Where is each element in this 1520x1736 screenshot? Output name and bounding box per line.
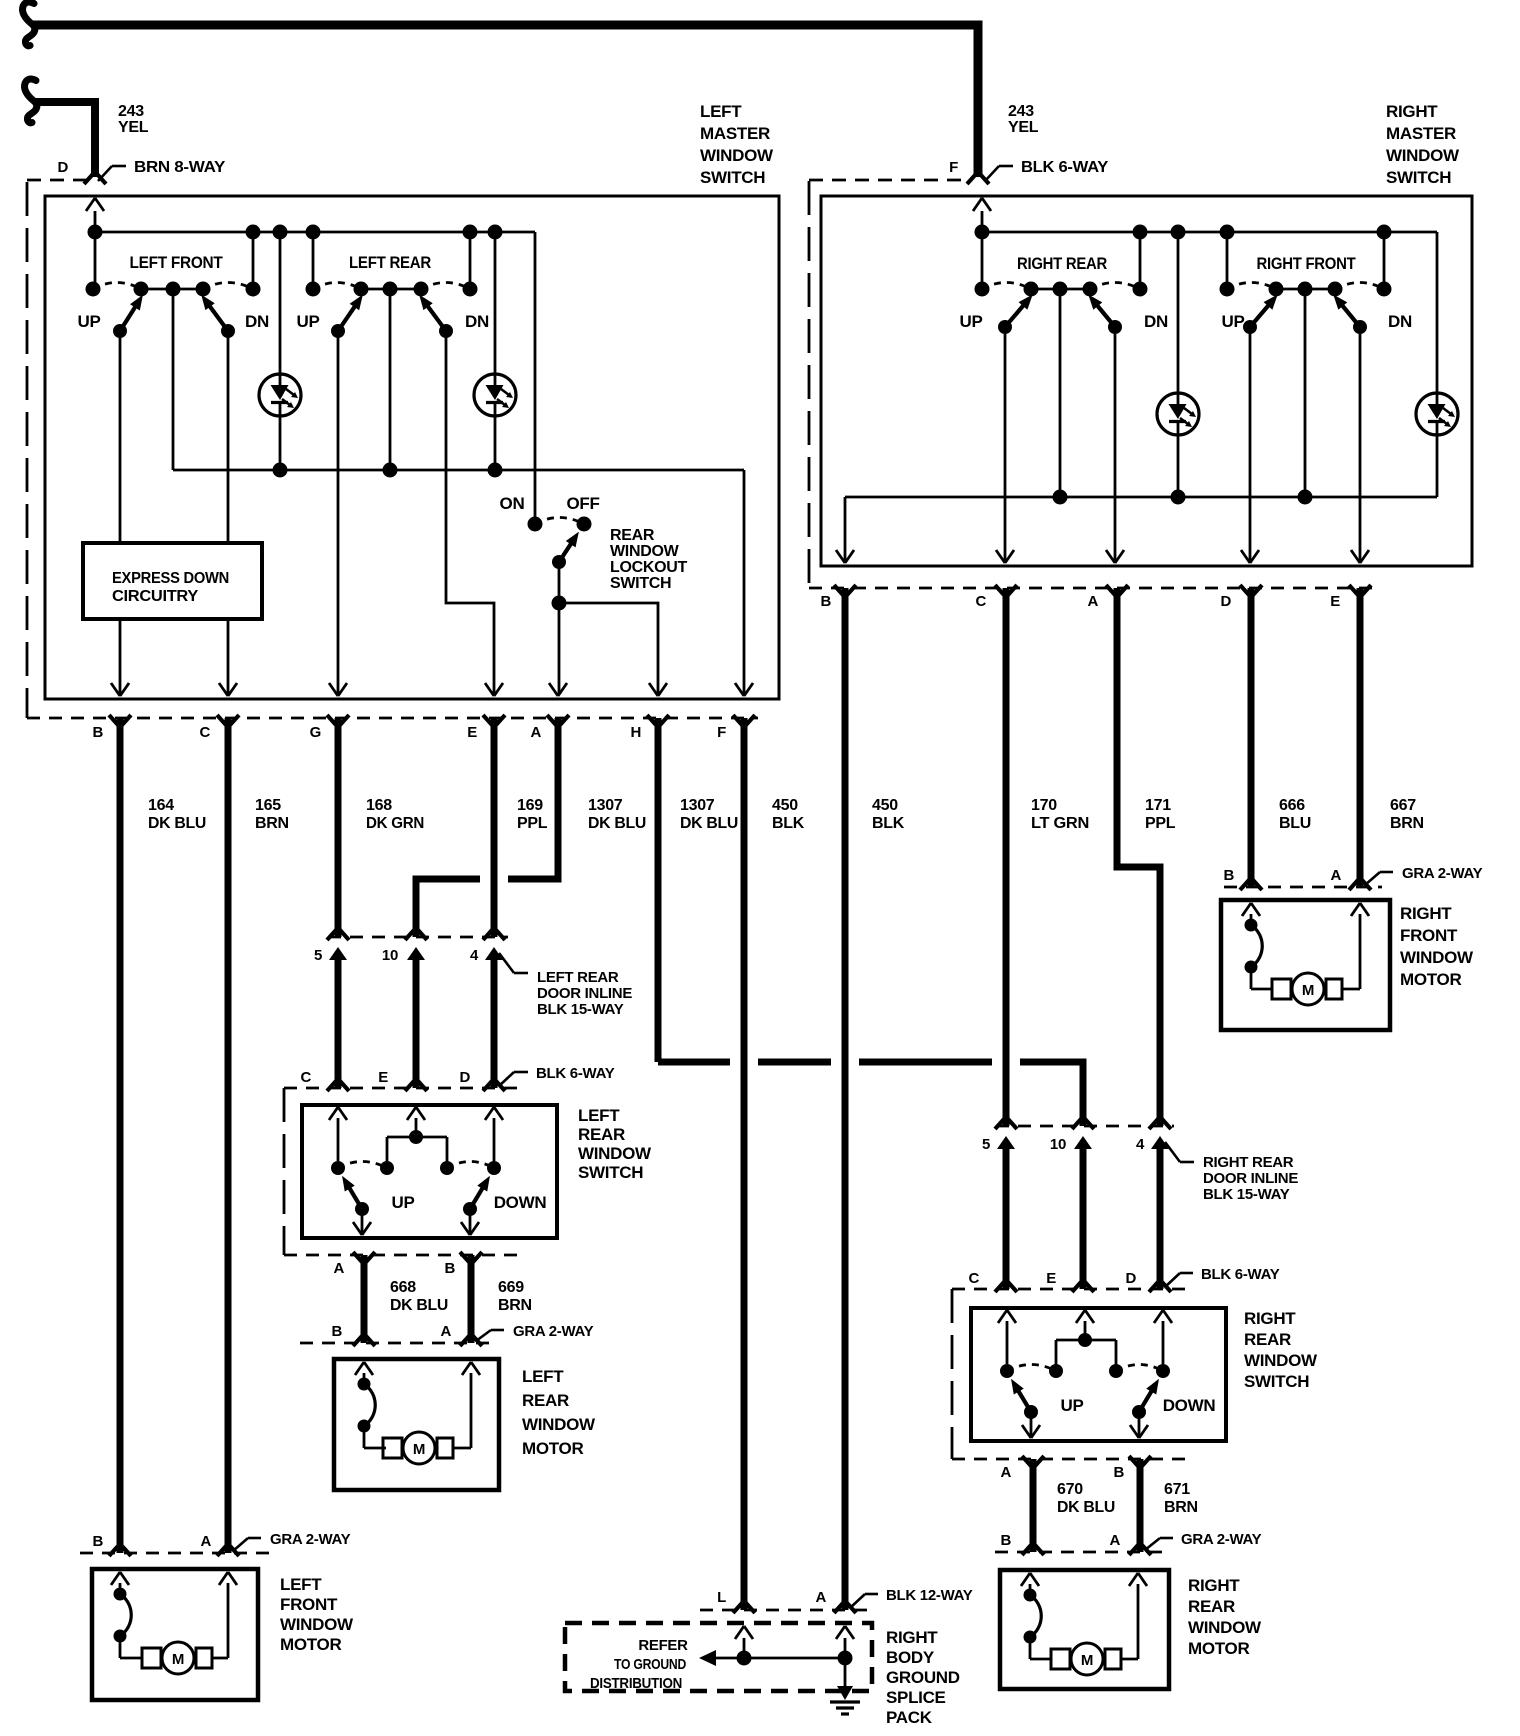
svg-text:MOTOR: MOTOR <box>1188 1639 1249 1658</box>
svg-text:ON: ON <box>500 494 525 513</box>
svg-text:C: C <box>199 724 210 741</box>
left master switch dashed outline <box>27 180 88 718</box>
ground symbol <box>830 1658 860 1714</box>
svg-text:C: C <box>968 1270 979 1287</box>
svg-text:BLK 6-WAY: BLK 6-WAY <box>1021 159 1109 176</box>
svg-text:WINDOW: WINDOW <box>522 1415 596 1434</box>
label LEFT FRONT <box>130 253 224 272</box>
svg-text:LEFT FRONT: LEFT FRONT <box>130 253 224 272</box>
svg-text:TO GROUND: TO GROUND <box>614 1656 686 1673</box>
svg-text:FRONT: FRONT <box>1400 926 1458 945</box>
svg-text:BODY: BODY <box>886 1648 935 1667</box>
wire 243 YEL top feed to right master switch <box>33 25 989 184</box>
svg-text:BRN: BRN <box>255 815 289 832</box>
pin D label <box>57 159 68 176</box>
svg-text:450: 450 <box>772 797 798 814</box>
svg-text:REAR: REAR <box>522 1391 569 1410</box>
left rear switch connector row <box>284 1252 520 1277</box>
svg-text:EXPRESS DOWN: EXPRESS DOWN <box>112 570 229 587</box>
right LED bottom wires <box>1178 423 1437 497</box>
lockout common wire <box>552 562 567 611</box>
svg-text:UP: UP <box>77 312 100 331</box>
wire 243 YEL feed to left master switch pin D <box>35 102 106 184</box>
svg-text:RIGHT: RIGHT <box>1244 1309 1296 1328</box>
svg-text:GRA 2-WAY: GRA 2-WAY <box>1402 865 1483 882</box>
svg-text:WINDOW: WINDOW <box>610 543 680 560</box>
label RIGHT REAR <box>1017 254 1107 273</box>
svg-text:1307: 1307 <box>680 797 715 814</box>
label 171 PPL <box>1145 797 1176 832</box>
right front DN arm <box>1333 295 1367 334</box>
svg-text:671: 671 <box>1164 1481 1190 1498</box>
svg-text:DN: DN <box>245 312 269 331</box>
label 666 BLU <box>1279 797 1311 832</box>
svg-text:PPL: PPL <box>517 815 548 832</box>
svg-text:BLK 15-WAY: BLK 15-WAY <box>537 1001 624 1018</box>
wire 170 LT GRN (C) <box>1003 588 1010 1126</box>
label 243 YEL (right) <box>1008 103 1039 136</box>
wire 671 BRN <box>1137 1459 1144 1552</box>
svg-text:LT GRN: LT GRN <box>1031 815 1089 832</box>
svg-text:666: 666 <box>1279 797 1305 814</box>
svg-text:DISTRIBUTION: DISTRIBUTION <box>590 1675 682 1692</box>
splice bus <box>713 1651 853 1666</box>
label 169 PPL <box>517 797 548 832</box>
svg-text:A: A <box>815 1589 826 1606</box>
left rear window motor <box>334 1359 596 1490</box>
wires inline to 6-way (right) <box>1006 1142 1160 1289</box>
right master connector line (BLK 6-WAY) <box>809 587 1372 590</box>
title RIGHT REAR WINDOW SWITCH <box>1244 1309 1318 1391</box>
wire 171 PPL (A) with jog <box>1117 588 1160 1126</box>
svg-text:FRONT: FRONT <box>280 1595 338 1614</box>
connector BLK 6-WAY label + leader (right master) <box>985 159 1109 181</box>
left rear window switch <box>302 1105 557 1238</box>
svg-text:669: 669 <box>498 1279 524 1296</box>
svg-text:BLK: BLK <box>772 815 805 832</box>
left rear switch dashed outline <box>283 1088 286 1255</box>
svg-text:5: 5 <box>314 947 322 964</box>
label RIGHT REAR DOOR INLINE BLK 15-WAY + leader <box>1165 1142 1298 1203</box>
svg-text:4: 4 <box>470 947 479 964</box>
LED indicator (right front) <box>1416 393 1458 435</box>
wire break symbol (left feed continues) <box>25 79 37 123</box>
label DN (right rear) <box>1144 312 1168 331</box>
wire break symbol (top feed continues) <box>23 2 35 46</box>
svg-text:DK BLU: DK BLU <box>390 1297 448 1314</box>
left master connector line (BRN 8-WAY) <box>27 717 758 720</box>
svg-text:LOCKOUT: LOCKOUT <box>610 559 688 576</box>
collector junction dots <box>273 463 503 478</box>
wire left rear mid contact <box>173 289 390 470</box>
inline pins 5 10 4 (left) <box>314 947 503 964</box>
left front switch dashed arcs <box>93 283 253 290</box>
svg-text:WINDOW: WINDOW <box>1386 146 1460 165</box>
svg-text:YEL: YEL <box>118 119 149 136</box>
left front UP arm <box>113 295 143 338</box>
right front motor connector GRA 2-WAY <box>1223 867 1382 890</box>
svg-text:M: M <box>1081 1652 1093 1669</box>
svg-text:REFER: REFER <box>638 1637 688 1654</box>
connector BRN 8-WAY label + leader <box>98 159 226 181</box>
svg-text:MOTOR: MOTOR <box>1400 970 1461 989</box>
refer-to-ground arrow <box>699 1650 716 1666</box>
svg-text:WINDOW: WINDOW <box>1188 1618 1262 1637</box>
left rear switch dashed arcs <box>313 283 470 290</box>
label BLK 6-WAY + leader (left rear switch) <box>499 1065 615 1086</box>
bus drop wires <box>95 232 495 387</box>
svg-text:DK BLU: DK BLU <box>588 815 646 832</box>
right rear switch dashed outline <box>951 1289 954 1459</box>
svg-text:REAR: REAR <box>578 1125 625 1144</box>
label 164 DK BLU <box>148 797 206 832</box>
label UP (left front) <box>77 312 100 331</box>
svg-text:170: 170 <box>1031 797 1057 814</box>
svg-text:D: D <box>57 159 68 176</box>
label BLK 12-WAY + leader <box>850 1587 973 1608</box>
LED indicator (left front) <box>259 374 301 416</box>
svg-text:M: M <box>413 1441 425 1458</box>
right mid contact wires <box>1060 289 1305 497</box>
svg-text:DOOR INLINE: DOOR INLINE <box>537 985 632 1002</box>
svg-text:A: A <box>333 1260 344 1277</box>
svg-text:450: 450 <box>872 797 898 814</box>
svg-text:DOOR INLINE: DOOR INLINE <box>1203 1170 1298 1187</box>
svg-text:RIGHT REAR: RIGHT REAR <box>1203 1154 1294 1171</box>
wire lockout to pin A <box>558 603 561 695</box>
wire left front DN arm to pin C <box>227 331 230 695</box>
label UP (left rear) <box>296 312 319 331</box>
wire 164 DK BLU (B) <box>117 718 124 1553</box>
svg-text:168: 168 <box>366 797 392 814</box>
svg-text:C: C <box>300 1069 311 1086</box>
svg-text:DN: DN <box>1388 312 1412 331</box>
title LEFT MASTER WINDOW SWITCH <box>700 102 774 187</box>
svg-text:DK GRN: DK GRN <box>366 815 424 832</box>
left connector wire flares <box>109 715 755 725</box>
svg-text:BLK: BLK <box>872 815 905 832</box>
right front switch dashed arcs <box>1227 283 1384 290</box>
svg-text:UP: UP <box>959 312 982 331</box>
label GRA 2-WAY + leader (left rear motor) <box>476 1323 594 1341</box>
svg-text:WINDOW: WINDOW <box>1244 1351 1318 1370</box>
label GRA 2-WAY + leader (right rear motor) <box>1145 1531 1262 1550</box>
svg-text:WINDOW: WINDOW <box>1400 948 1474 967</box>
svg-text:SWITCH: SWITCH <box>578 1163 643 1182</box>
label REFER TO GROUND DISTRIBUTION <box>590 1637 688 1692</box>
svg-text:BLU: BLU <box>1279 815 1311 832</box>
svg-text:YEL: YEL <box>1008 119 1039 136</box>
label 1307 DK BLU (H) <box>680 797 738 832</box>
wire 165 BRN (C) <box>225 718 232 1553</box>
pin D entry arrow <box>86 198 104 232</box>
svg-text:667: 667 <box>1390 797 1416 814</box>
svg-text:A: A <box>200 1533 211 1550</box>
left rear DN arm <box>419 295 453 338</box>
right master switch box <box>821 196 1472 566</box>
EXPRESS DOWN CIRCUITRY box <box>83 543 262 619</box>
svg-text:D: D <box>459 1069 470 1086</box>
label GRA 2-WAY + leader (left front motor) <box>233 1531 351 1551</box>
right rear switch connector row <box>952 1456 1185 1481</box>
svg-text:DOWN: DOWN <box>1163 1396 1216 1415</box>
right collector dots <box>1053 490 1313 505</box>
right rear UP arm <box>998 295 1033 334</box>
left rear door inline connector BLK 15-WAY <box>327 930 508 940</box>
lockout switch arm <box>552 532 579 569</box>
label 670 DK BLU <box>1057 1481 1115 1516</box>
left rear motor connector GRA 2-WAY <box>300 1323 495 1346</box>
svg-text:DN: DN <box>1144 312 1168 331</box>
label 667 BRN <box>1390 797 1424 832</box>
svg-text:B: B <box>820 593 831 610</box>
svg-text:A: A <box>530 724 541 741</box>
wire 667 BRN (E) <box>1357 588 1364 887</box>
inline pins 5 10 4 (right) <box>982 1136 1169 1153</box>
right master bottom pin arrows <box>836 550 1369 563</box>
svg-text:UP: UP <box>391 1193 414 1212</box>
svg-text:REAR: REAR <box>1188 1597 1235 1616</box>
svg-text:RIGHT: RIGHT <box>1188 1576 1240 1595</box>
svg-text:GRA 2-WAY: GRA 2-WAY <box>270 1531 351 1548</box>
left front DN arm <box>201 295 235 338</box>
left rear UP arm <box>331 295 363 338</box>
label 243 YEL (left) <box>118 103 149 136</box>
right connector pin letters <box>820 593 1340 610</box>
wire left rear UP arm to pin G <box>337 331 340 695</box>
svg-text:M: M <box>172 1651 184 1668</box>
svg-text:H: H <box>630 724 641 741</box>
label 669 BRN <box>498 1279 532 1314</box>
label DN (left front) <box>245 312 269 331</box>
svg-text:B: B <box>92 1533 103 1550</box>
label 668 DK BLU <box>390 1279 448 1314</box>
svg-text:SPLICE: SPLICE <box>886 1688 946 1707</box>
svg-text:4: 4 <box>1136 1136 1145 1153</box>
right rear window motor <box>1000 1570 1262 1689</box>
right rear switch contacts <box>975 282 1148 297</box>
svg-text:MASTER: MASTER <box>700 124 770 143</box>
svg-text:E: E <box>378 1069 388 1086</box>
svg-text:REAR: REAR <box>1244 1330 1291 1349</box>
svg-text:B: B <box>92 724 103 741</box>
svg-text:243: 243 <box>1008 103 1034 120</box>
wire 1307 DK BLU (A) with jog <box>416 718 558 937</box>
svg-text:RIGHT: RIGHT <box>1386 102 1438 121</box>
svg-text:1307: 1307 <box>588 797 623 814</box>
pin F entry arrow <box>973 198 991 232</box>
svg-text:LEFT: LEFT <box>578 1106 620 1125</box>
wire 450 BLK (right B) <box>842 588 849 1610</box>
svg-text:B: B <box>1000 1532 1011 1549</box>
rear window lockout switch contacts <box>528 517 592 532</box>
svg-text:WINDOW: WINDOW <box>578 1144 652 1163</box>
svg-text:10: 10 <box>1050 1136 1066 1153</box>
label RIGHT FRONT <box>1257 254 1357 273</box>
label 450 BLK (F) <box>772 797 805 832</box>
svg-text:DK BLU: DK BLU <box>680 815 738 832</box>
left master bottom pin arrows <box>111 683 753 696</box>
label DN (right front) <box>1388 312 1412 331</box>
right arm wires to pins <box>1005 327 1360 562</box>
svg-text:LEFT: LEFT <box>522 1367 564 1386</box>
label 170 LT GRN <box>1031 797 1089 832</box>
svg-text:LEFT: LEFT <box>280 1575 322 1594</box>
svg-text:DN: DN <box>465 312 489 331</box>
pin F label (right master) <box>949 159 958 176</box>
svg-text:B: B <box>444 1260 455 1277</box>
right bus drop wires <box>982 232 1384 406</box>
wire lockout to pin H <box>559 603 658 695</box>
right master switch dashed outline <box>809 180 972 588</box>
svg-text:BLK 6-WAY: BLK 6-WAY <box>536 1065 615 1082</box>
svg-text:BRN: BRN <box>1164 1499 1198 1516</box>
LED feed wires <box>280 404 495 470</box>
right rear DN arm <box>1088 295 1122 334</box>
wire 668 DK BLU <box>361 1255 368 1343</box>
svg-text:GROUND: GROUND <box>886 1668 960 1687</box>
svg-text:MOTOR: MOTOR <box>280 1635 341 1654</box>
svg-text:SWITCH: SWITCH <box>1386 168 1451 187</box>
LED indicator (left rear) <box>474 374 516 416</box>
svg-text:M: M <box>1302 982 1314 999</box>
left connector pin letters <box>92 724 726 741</box>
label 165 BRN <box>255 797 289 832</box>
svg-text:PPL: PPL <box>1145 815 1176 832</box>
svg-text:PACK: PACK <box>886 1708 933 1727</box>
right front window motor <box>1221 900 1474 1030</box>
left master supply bus <box>95 232 535 524</box>
svg-text:L: L <box>717 1589 726 1606</box>
svg-text:A: A <box>440 1323 451 1340</box>
right connector wire flares <box>834 585 1371 595</box>
svg-text:RIGHT: RIGHT <box>1400 904 1452 923</box>
svg-text:B: B <box>1223 867 1234 884</box>
right rear motor connector GRA 2-WAY <box>995 1532 1165 1555</box>
svg-text:CIRCUITRY: CIRCUITRY <box>112 588 199 605</box>
svg-text:BRN: BRN <box>498 1297 532 1314</box>
svg-text:MOTOR: MOTOR <box>522 1439 583 1458</box>
svg-text:E: E <box>467 724 477 741</box>
title RIGHT BODY GROUND SPLICE PACK <box>886 1628 960 1727</box>
splice pack pins <box>735 1626 854 1658</box>
body ground connector BLK 12-WAY <box>700 1589 875 1613</box>
right front switch contacts <box>1220 282 1392 297</box>
wires inline to 6-way (left) <box>338 953 494 1088</box>
left rear switch connector BLK 6-WAY <box>284 1069 520 1091</box>
svg-text:B: B <box>1113 1464 1124 1481</box>
label 1307 DK BLU (A) <box>588 797 646 832</box>
svg-text:REAR: REAR <box>610 527 655 544</box>
svg-text:BLK 6-WAY: BLK 6-WAY <box>1201 1266 1280 1283</box>
svg-text:171: 171 <box>1145 797 1171 814</box>
svg-text:SWITCH: SWITCH <box>610 575 671 592</box>
wire 669 BRN <box>468 1255 475 1343</box>
svg-text:DK BLU: DK BLU <box>1057 1499 1115 1516</box>
svg-text:BRN 8-WAY: BRN 8-WAY <box>134 159 226 176</box>
label DN (left rear) <box>465 312 489 331</box>
label REAR WINDOW LOCKOUT SWITCH <box>610 527 688 592</box>
right ground collector <box>845 497 1437 562</box>
left rear switch contacts <box>306 282 478 297</box>
labels ON / OFF <box>500 494 600 513</box>
svg-text:670: 670 <box>1057 1481 1083 1498</box>
label 671 BRN <box>1164 1481 1198 1516</box>
svg-text:BLK 15-WAY: BLK 15-WAY <box>1203 1186 1290 1203</box>
right rear switch connector BLK 6-WAY <box>952 1270 1185 1292</box>
right rear door inline connector BLK 15-WAY <box>995 1119 1174 1129</box>
svg-text:A: A <box>1330 867 1341 884</box>
right rear switch dashed arcs <box>982 283 1140 290</box>
svg-text:164: 164 <box>148 797 174 814</box>
svg-text:SWITCH: SWITCH <box>1244 1372 1309 1391</box>
svg-text:UP: UP <box>1221 312 1244 331</box>
label BLK 6-WAY + leader (right rear switch) <box>1165 1266 1280 1287</box>
ground splice pack dashed box <box>565 1623 872 1691</box>
svg-text:169: 169 <box>517 797 543 814</box>
label LEFT REAR DOOR INLINE BLK 15-WAY + leader <box>499 953 632 1018</box>
label UP (right front) <box>1221 312 1244 331</box>
svg-text:UP: UP <box>296 312 319 331</box>
bus junction dots <box>88 225 503 240</box>
svg-text:LEFT REAR: LEFT REAR <box>349 253 431 272</box>
svg-text:RIGHT REAR: RIGHT REAR <box>1017 254 1107 273</box>
left front window motor <box>92 1569 354 1700</box>
svg-text:A: A <box>1000 1464 1011 1481</box>
label UP (right rear) <box>959 312 982 331</box>
wire 666 BLU (D) <box>1248 588 1255 887</box>
left master switch box <box>45 196 779 699</box>
svg-text:5: 5 <box>982 1136 990 1153</box>
svg-text:DOWN: DOWN <box>494 1193 547 1212</box>
svg-text:B: B <box>331 1323 342 1340</box>
svg-text:C: C <box>975 593 986 610</box>
svg-text:RIGHT FRONT: RIGHT FRONT <box>1257 254 1357 273</box>
svg-text:BLK 12-WAY: BLK 12-WAY <box>886 1587 973 1604</box>
svg-text:A: A <box>1109 1532 1120 1549</box>
wire 1307 DK BLU (H) <box>655 718 662 1062</box>
title RIGHT MASTER WINDOW SWITCH <box>1386 102 1460 187</box>
wire 450 BLK (F) <box>741 718 748 1610</box>
wire left rear DN arm to pin E <box>446 331 494 695</box>
label 450 BLK (right) <box>872 797 905 832</box>
left front switch contacts <box>86 282 261 297</box>
ground collector bus <box>173 470 744 695</box>
svg-text:RIGHT: RIGHT <box>886 1628 938 1647</box>
LED indicator (right rear) <box>1157 393 1199 435</box>
left front motor connector GRA 2-WAY <box>80 1533 270 1556</box>
svg-text:A: A <box>1087 593 1098 610</box>
svg-text:GRA 2-WAY: GRA 2-WAY <box>513 1323 594 1340</box>
svg-text:243: 243 <box>118 103 144 120</box>
wire left front UP arm to pin B <box>119 331 122 695</box>
svg-text:WINDOW: WINDOW <box>280 1615 354 1634</box>
svg-text:MASTER: MASTER <box>1386 124 1456 143</box>
svg-text:165: 165 <box>255 797 281 814</box>
svg-text:D: D <box>1125 1270 1136 1287</box>
label 168 DK GRN <box>366 797 424 832</box>
title LEFT REAR WINDOW SWITCH <box>578 1106 652 1182</box>
svg-text:E: E <box>1330 593 1340 610</box>
svg-text:UP: UP <box>1060 1396 1083 1415</box>
svg-text:F: F <box>717 724 726 741</box>
wire 1307 DK BLU jog to right door (with crossovers) <box>658 1062 1083 1126</box>
svg-text:WINDOW: WINDOW <box>700 146 774 165</box>
svg-text:LEFT: LEFT <box>700 102 742 121</box>
right rear window switch <box>971 1308 1226 1441</box>
label LEFT REAR <box>349 253 431 272</box>
svg-text:SWITCH: SWITCH <box>700 168 765 187</box>
